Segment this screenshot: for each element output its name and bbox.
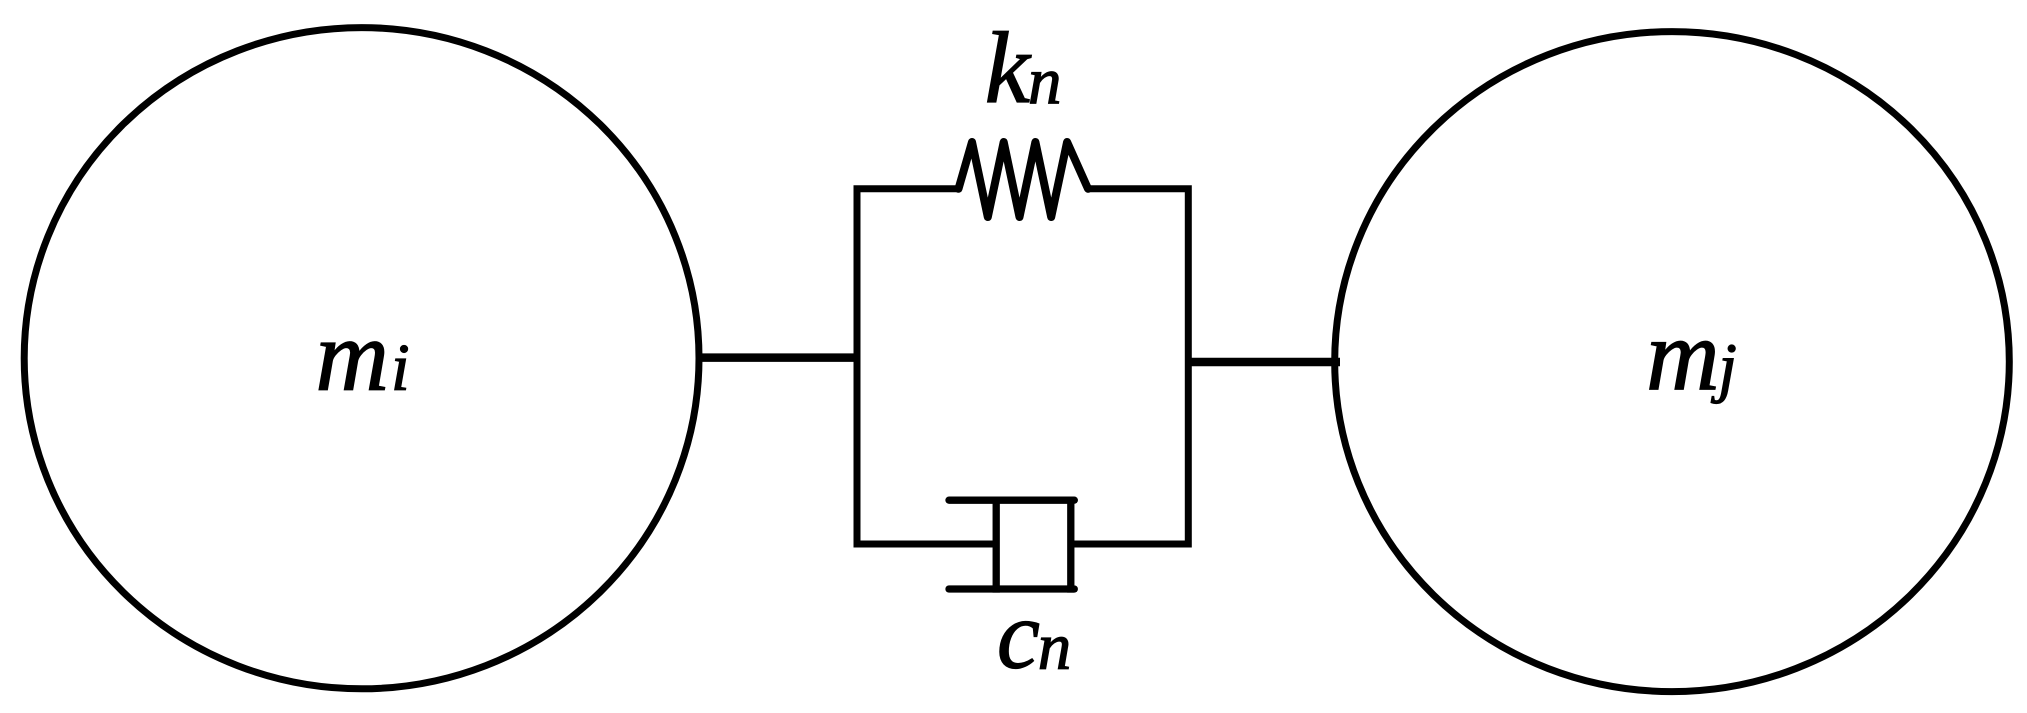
mass circle m_i: [24, 28, 699, 689]
svg-text:n: n: [1038, 610, 1072, 684]
mass circle m_j: [1335, 32, 2010, 692]
svg-text:i: i: [391, 330, 410, 404]
damper c_n cylinder right wall: [1067, 497, 1074, 593]
svg-text:k: k: [985, 12, 1032, 125]
wire from spring-damper box to m_j: [1186, 358, 1340, 367]
svg-text:n: n: [1028, 44, 1062, 118]
damper c_n piston plate: [993, 497, 1000, 593]
box right side: top edge right of spring, right edge, bottom edge right of damper: [1072, 189, 1188, 544]
svg-text:m: m: [315, 299, 389, 412]
svg-text:m: m: [1646, 299, 1720, 412]
spring k_n zigzag: [959, 142, 1089, 217]
damper c_n cylinder top line: [949, 497, 1074, 504]
box left side: top edge left of spring, left edge, bottom edge left of damper piston: [857, 189, 996, 544]
damper c_n cylinder bottom line: [949, 585, 1074, 592]
svg-text:c: c: [997, 582, 1040, 689]
wire from m_i to spring-damper box: [698, 353, 859, 362]
